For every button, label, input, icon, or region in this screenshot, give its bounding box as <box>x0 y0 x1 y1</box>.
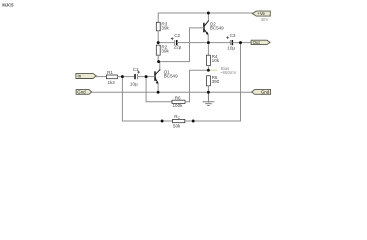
node Q1 emitter on gnd rail <box>157 91 160 94</box>
svg-text:39k: 39k <box>161 48 169 53</box>
wire divider node to C2 <box>158 42 174 44</box>
resistor R6 <box>172 95 185 108</box>
node Rc right terminal <box>192 120 195 123</box>
svg-text:C2: C2 <box>174 33 180 38</box>
resistor R5 <box>207 75 220 92</box>
svg-text:Gnd: Gnd <box>77 90 86 95</box>
svg-text:22µ: 22µ <box>174 45 182 50</box>
resistor R4 <box>207 43 220 71</box>
svg-text:50k: 50k <box>173 124 181 129</box>
node R5 bottom on gnd rail <box>207 91 210 94</box>
wire +Ve top rail <box>158 13 252 22</box>
svg-text:C1: C1 <box>133 67 139 72</box>
wire C3 to Out tag <box>233 42 251 44</box>
wire C2 to emitter node to C3 <box>177 42 230 44</box>
svg-text:Gnd: Gnd <box>261 90 270 95</box>
junction dots <box>121 12 242 123</box>
wire R6 to bias node <box>185 70 208 102</box>
wire Q2 base link <box>158 28 203 62</box>
node Q2 emitter / R4 / C2-C3 <box>207 41 210 44</box>
port tag Gnd left <box>76 90 92 95</box>
svg-text:10µ: 10µ <box>227 46 235 51</box>
svg-text:10k: 10k <box>212 58 220 63</box>
node output / C3 / Out <box>239 41 242 44</box>
transistor Q2 <box>204 13 224 43</box>
node Rc left terminal <box>161 120 164 123</box>
wire Out node down + bottom feedback line <box>240 43 242 121</box>
svg-text:~650mV: ~650mV <box>220 70 237 75</box>
port tag Gnd right <box>252 90 271 95</box>
resistor Rc <box>173 114 185 129</box>
node Q1 base / C1 / R6 <box>145 75 148 78</box>
svg-text:30V: 30V <box>261 17 269 22</box>
wire feedback vertical from R1/C1 node <box>121 77 123 121</box>
transistor Q1 <box>155 62 178 93</box>
resistor R1 <box>106 70 117 85</box>
wire base to R6 <box>146 77 172 102</box>
node Q1 collector / R2 / Q2 base <box>157 60 160 63</box>
node R1/C1/feedback <box>121 75 124 78</box>
wire R2 stubs <box>157 43 159 46</box>
wire R1 to C1 <box>117 76 134 78</box>
bias annotation dashed line <box>210 69 217 71</box>
svg-text:BC549: BC549 <box>210 25 224 30</box>
svg-text:C3: C3 <box>230 33 236 38</box>
power tag +Ve <box>252 11 270 16</box>
capacitor C1 <box>130 67 140 86</box>
svg-text:BC549: BC549 <box>164 74 178 79</box>
svg-text:MJC5: MJC5 <box>2 2 14 7</box>
svg-text:100k: 100k <box>173 103 184 108</box>
node Q2 collector on rail <box>207 12 210 15</box>
ground symbol <box>203 92 214 105</box>
node divider R3/R2/C2 <box>157 41 160 44</box>
port tag In <box>76 73 96 78</box>
svg-text:+Ve: +Ve <box>257 11 265 16</box>
wire R3 bottom to node <box>157 31 159 43</box>
resistor R3 <box>156 22 169 31</box>
capacitor C3 <box>227 33 236 51</box>
svg-text:390: 390 <box>212 79 220 84</box>
wire C1 to Q1 base <box>138 76 155 78</box>
svg-text:10µ: 10µ <box>130 81 138 86</box>
wire gnd rail <box>92 91 252 93</box>
resistor R2 <box>156 45 169 56</box>
capacitor C2 <box>171 33 182 50</box>
svg-text:Out: Out <box>253 40 261 45</box>
port tag Out <box>251 40 270 45</box>
svg-text:In: In <box>78 74 82 79</box>
node bias R4/R5/R6 <box>207 69 210 72</box>
svg-text:R6: R6 <box>175 95 181 100</box>
svg-text:39k: 39k <box>161 26 169 31</box>
svg-text:1k2: 1k2 <box>108 80 116 85</box>
wire In to R1 <box>96 76 106 78</box>
svg-text:R1: R1 <box>107 70 113 75</box>
